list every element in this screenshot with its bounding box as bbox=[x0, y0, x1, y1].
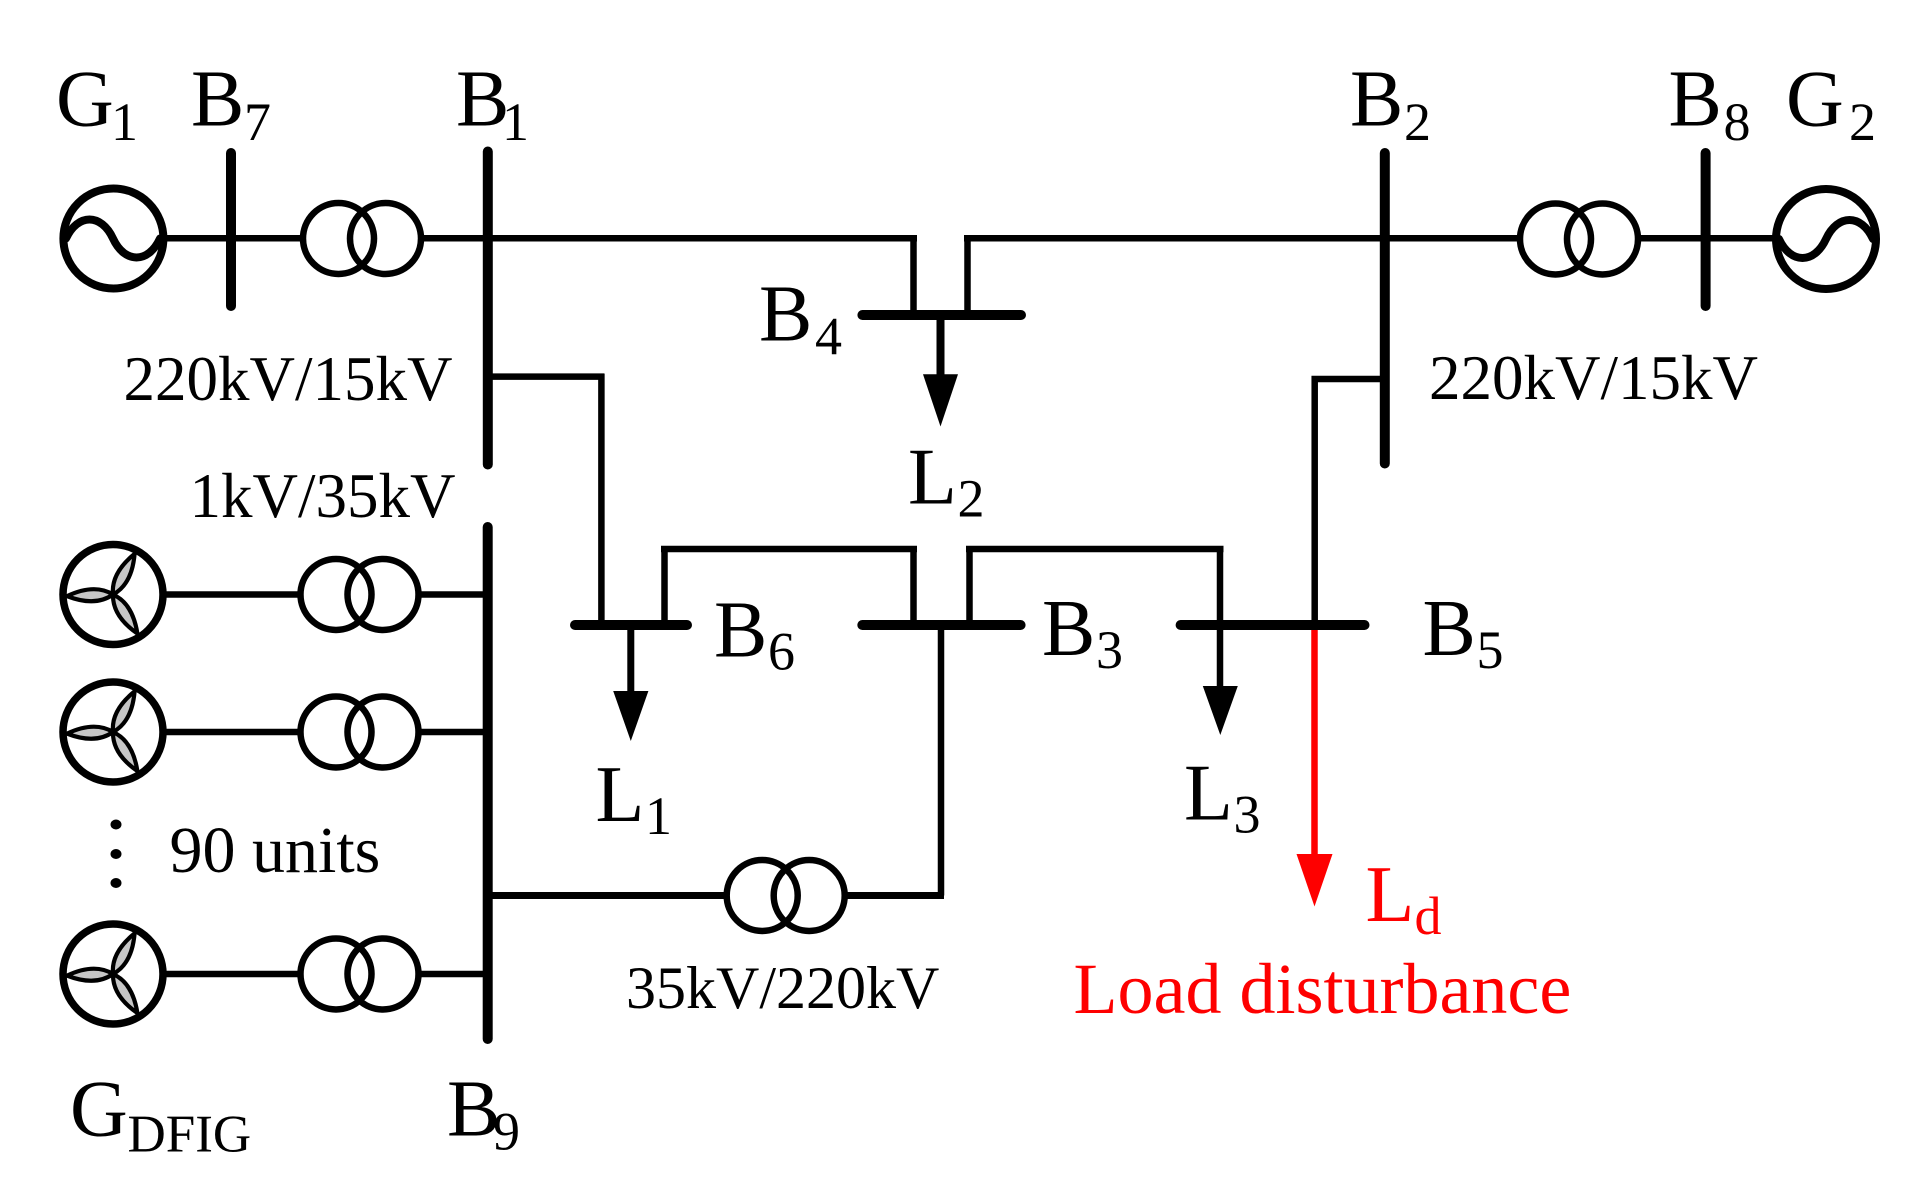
svg-text:220kV/15kV: 220kV/15kV bbox=[124, 344, 453, 414]
svg-text:Load disturbance: Load disturbance bbox=[1074, 949, 1572, 1029]
svg-text:2: 2 bbox=[1849, 92, 1876, 152]
svg-text:d: d bbox=[1415, 886, 1442, 946]
svg-text:1: 1 bbox=[645, 786, 672, 846]
svg-text:3: 3 bbox=[1096, 620, 1123, 680]
svg-text:2: 2 bbox=[1404, 92, 1431, 152]
svg-text:6: 6 bbox=[768, 622, 795, 682]
svg-text:B: B bbox=[1350, 56, 1403, 144]
svg-text:L: L bbox=[908, 434, 957, 522]
svg-text:1: 1 bbox=[502, 92, 529, 152]
svg-text:B: B bbox=[759, 271, 812, 359]
svg-text:G: G bbox=[1786, 56, 1844, 144]
svg-text:1kV/35kV: 1kV/35kV bbox=[190, 461, 456, 531]
svg-text:B: B bbox=[1042, 585, 1095, 673]
svg-text:DFIG: DFIG bbox=[128, 1106, 252, 1164]
svg-text:90 units: 90 units bbox=[170, 814, 381, 887]
svg-text:35kV/220kV: 35kV/220kV bbox=[626, 955, 939, 1021]
svg-text:B: B bbox=[1423, 585, 1476, 673]
svg-text:2: 2 bbox=[958, 469, 985, 529]
svg-text:220kV/15kV: 220kV/15kV bbox=[1429, 343, 1758, 413]
svg-text:L: L bbox=[1184, 750, 1233, 838]
svg-text:L: L bbox=[1366, 851, 1415, 939]
svg-text:9: 9 bbox=[493, 1102, 520, 1162]
svg-text:L: L bbox=[596, 751, 645, 839]
svg-text:B: B bbox=[191, 56, 244, 144]
svg-text:7: 7 bbox=[244, 92, 271, 152]
svg-text:G: G bbox=[56, 56, 114, 144]
svg-text:1: 1 bbox=[111, 92, 138, 152]
svg-text:4: 4 bbox=[815, 307, 842, 367]
svg-text:8: 8 bbox=[1724, 92, 1751, 152]
svg-text:5: 5 bbox=[1477, 620, 1504, 680]
svg-text:G: G bbox=[70, 1066, 128, 1154]
svg-text:3: 3 bbox=[1234, 785, 1261, 845]
svg-text:B: B bbox=[1669, 56, 1722, 144]
svg-text:B: B bbox=[714, 587, 767, 675]
